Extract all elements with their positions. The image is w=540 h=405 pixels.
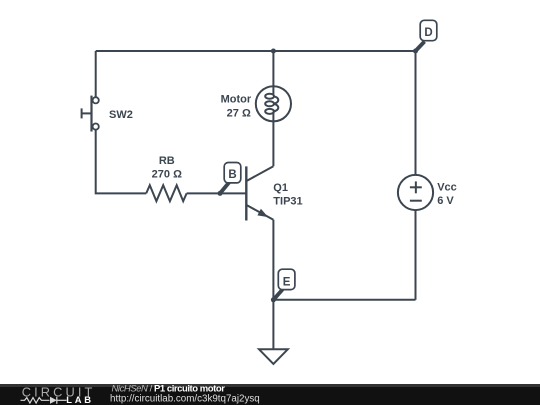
junction dot motor/top rail xyxy=(271,49,276,54)
ground xyxy=(259,349,288,364)
svg-text:http://circuitlab.com/c3k9tq7a: http://circuitlab.com/c3k9tq7aj2ysq xyxy=(110,394,260,405)
junction dot D xyxy=(413,49,418,54)
voltage source Vcc xyxy=(398,175,433,210)
svg-text:270 Ω: 270 Ω xyxy=(152,168,182,180)
svg-text:Q1: Q1 xyxy=(273,182,288,194)
node B box xyxy=(224,163,241,183)
wire right top xyxy=(415,51,417,175)
svg-text:27 Ω: 27 Ω xyxy=(227,108,251,120)
wire bottom rail xyxy=(273,299,415,301)
svg-text:6 V: 6 V xyxy=(437,195,454,207)
svg-text:Motor: Motor xyxy=(221,94,252,106)
svg-text:E: E xyxy=(283,276,291,288)
transistor Q1 xyxy=(246,166,273,220)
svg-text:B: B xyxy=(228,169,236,181)
node E box xyxy=(278,269,295,289)
svg-text:TIP31: TIP31 xyxy=(273,196,302,208)
emitter arrow xyxy=(257,209,268,217)
node B leader xyxy=(220,183,229,194)
wire left top to switch xyxy=(95,51,97,97)
switch SW2 xyxy=(82,96,99,132)
svg-text:LAB: LAB xyxy=(66,394,93,405)
svg-text:Vcc: Vcc xyxy=(437,182,457,194)
wire motor top xyxy=(272,51,274,94)
wire top rail xyxy=(96,50,416,52)
wire resistor to base xyxy=(187,192,247,194)
logo zigzag + diode xyxy=(21,397,67,404)
motor M (circle with coil) xyxy=(256,86,291,121)
footer bar xyxy=(0,384,540,405)
node E leader xyxy=(273,290,282,300)
svg-text:D: D xyxy=(424,27,432,39)
wire motor bottom to collector xyxy=(272,112,274,167)
wire ground stem xyxy=(272,300,274,350)
svg-text:SW2: SW2 xyxy=(109,109,133,121)
node D leader xyxy=(416,42,425,52)
wire right bottom xyxy=(415,210,417,300)
wire switch to resistor corner xyxy=(96,130,147,194)
svg-text:RB: RB xyxy=(159,155,175,167)
junction dot B xyxy=(218,191,223,196)
resistor RB zigzag xyxy=(146,185,186,201)
wire emitter down xyxy=(272,220,274,300)
node D box xyxy=(420,20,437,40)
junction dot E xyxy=(271,297,276,302)
